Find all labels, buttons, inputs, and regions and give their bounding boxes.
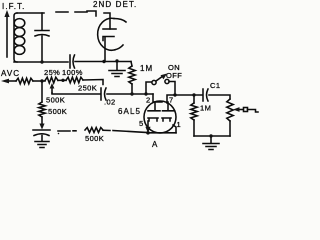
wire dashed bottom: [58, 130, 76, 132]
tube U1 plate leads: [155, 102, 168, 111]
resistor 250K section: [66, 77, 83, 83]
wire off contact to pin7 node: [169, 82, 175, 96]
tube V1 2nd det envelope: [98, 18, 115, 50]
svg-text:6AL5: 6AL5: [118, 107, 141, 116]
node AVC junction: [40, 79, 43, 82]
wire cap to bottom node: [41, 36, 43, 62]
ground left: [35, 136, 49, 148]
svg-text:.02: .02: [104, 98, 116, 107]
wire AVC branch down: [41, 81, 43, 102]
wire 1M to audio line: [131, 84, 133, 94]
node tap junction: [61, 79, 64, 82]
wire IFT bottom horizontal: [14, 61, 68, 63]
node ground right: [209, 134, 212, 137]
resistor AVC filter: [16, 78, 33, 84]
wire coil top to cap: [17, 12, 44, 14]
capacitor tuning lead: [41, 13, 43, 30]
wire C1 to pot: [209, 95, 230, 99]
wire load end: [83, 80, 103, 85]
wire pin2 step: [153, 94, 162, 102]
svg-text:OFF: OFF: [166, 71, 182, 80]
ground det: [109, 61, 125, 77]
node C1 branch: [192, 93, 195, 96]
resistor 1M first audio grid: [129, 66, 135, 84]
wire between: [58, 79, 66, 81]
wire audio line: [107, 93, 153, 95]
switch S1 pivot contact: [152, 80, 156, 84]
tube U1 6AL5 envelope: [144, 101, 176, 133]
svg-text:7: 7: [169, 96, 174, 105]
switch S1 off contact: [165, 79, 169, 83]
resistor diode load section: [45, 77, 58, 83]
svg-text:1: 1: [177, 120, 182, 129]
tube V1 plate: [103, 28, 116, 30]
tube U1 cathodes: [148, 118, 171, 121]
svg-text:2: 2: [146, 96, 151, 105]
svg-text:2ND DET.: 2ND DET.: [93, 0, 137, 9]
node A junction: [146, 131, 150, 135]
potentiometer volume: [227, 99, 233, 121]
wire pin5 lead with arrow: [147, 121, 149, 127]
tube U1 plates: [148, 110, 174, 112]
svg-text:1M: 1M: [140, 64, 153, 73]
wire AVC to junction: [33, 80, 45, 82]
wiper output terminal: [244, 108, 248, 112]
svg-text:500K: 500K: [85, 134, 104, 143]
tube V1 plate lead: [104, 13, 110, 29]
wire 1M to bottom: [193, 120, 195, 136]
svg-text:250K: 250K: [78, 84, 97, 93]
svg-text:I.F.T.: I.F.T.: [2, 2, 26, 11]
svg-text:1M: 1M: [200, 104, 211, 113]
wire AVC arrow: [8, 80, 16, 82]
wire primary lead with up arrow: [6, 16, 8, 57]
svg-text:C1: C1: [210, 81, 220, 90]
svg-text:500K: 500K: [46, 96, 65, 105]
switch S1 arm: [156, 76, 163, 81]
ground right: [203, 136, 219, 150]
node 1M bottom: [130, 92, 133, 95]
capacitor .02: [101, 88, 106, 100]
wire wiper to cap: [52, 93, 100, 94]
wire bottom to tube: [103, 130, 147, 132]
tube V1 cathode: [103, 37, 114, 41]
svg-text:25%: 25%: [44, 68, 60, 77]
wire to 1M: [131, 62, 132, 67]
capacitor C1: [203, 89, 208, 101]
wire dashed to plate: [56, 11, 87, 13]
node IFT bottom junction: [40, 60, 43, 63]
node switch bottom: [144, 92, 147, 95]
wire tube bottom: [147, 132, 176, 134]
node pin7: [173, 93, 176, 96]
resistor 1M audio: [193, 95, 195, 103]
svg-text:500K: 500K: [48, 107, 67, 116]
wire pot to bottom: [229, 121, 231, 136]
inductor L1 loops: [14, 19, 25, 28]
svg-text:5: 5: [139, 119, 144, 128]
resistor 500K bottom: [85, 128, 103, 133]
wire switch lead: [146, 82, 151, 94]
node cathode junction: [102, 60, 105, 63]
wire cathode down: [104, 37, 105, 62]
inductor L1 coil backbone: [14, 13, 17, 62]
node ground junction: [115, 59, 118, 62]
wiper arrow: [51, 87, 53, 93]
wire output: [248, 110, 259, 113]
wire cap to det line: [75, 61, 131, 63]
wire pin1: [173, 125, 176, 133]
capacitor coupling on top line: [70, 55, 75, 68]
svg-text:AVC: AVC: [1, 69, 20, 78]
capacitor AVC bypass: [33, 130, 50, 136]
wire to C1: [175, 94, 202, 96]
wire pin7 step: [167, 95, 175, 103]
wire bottom right: [194, 135, 230, 137]
resistor 500K AVC filter: [39, 102, 45, 117]
capacitor tuning C: [35, 31, 49, 37]
wire to bypass cap with arrow: [41, 117, 43, 124]
svg-text:A: A: [152, 140, 158, 149]
wiper output arrow: [238, 109, 243, 111]
